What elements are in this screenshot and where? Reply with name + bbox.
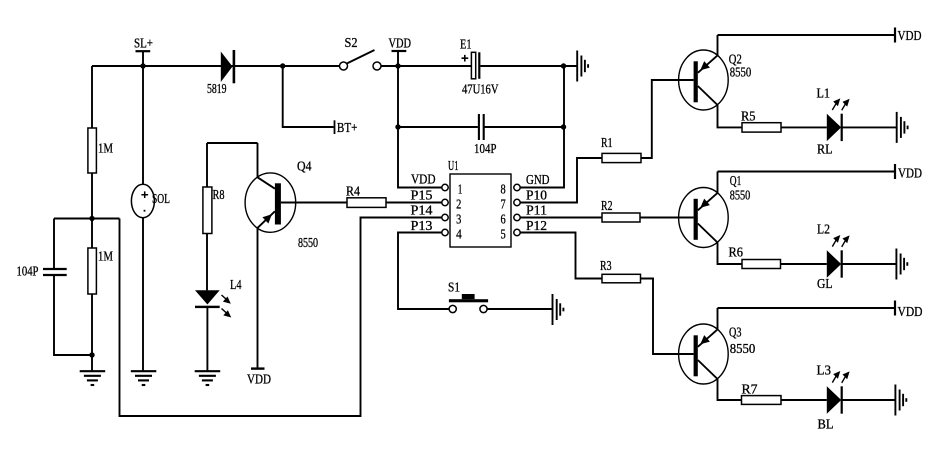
wire SL+ rail to SOL	[142, 66, 144, 184]
resistor R2	[601, 198, 640, 222]
svg-text:GL: GL	[817, 276, 833, 291]
ground L1	[897, 112, 908, 143]
node 1M divider junction	[89, 216, 94, 221]
wire pin7 to R1	[520, 158, 602, 203]
resistor 1M upper	[88, 128, 113, 173]
wire R3 to Q3 base	[641, 279, 694, 355]
svg-text:104P: 104P	[474, 141, 497, 156]
node ground-left junction	[89, 352, 94, 357]
transistor Q4	[245, 159, 318, 251]
ground L2	[896, 249, 907, 280]
wire BT+ branch	[283, 66, 334, 127]
power terminal VDD bottom	[247, 369, 271, 387]
wire R8 upper lead	[206, 143, 208, 187]
svg-text:L2: L2	[817, 222, 830, 237]
capacitor E1	[460, 37, 499, 97]
svg-text:L1: L1	[817, 86, 831, 101]
node ground-top junction	[561, 63, 566, 68]
svg-text:47U16V: 47U16V	[462, 82, 499, 97]
wire left rail mid	[91, 173, 93, 248]
wire R2 to Q1 base	[640, 217, 694, 219]
svg-text:1M: 1M	[98, 249, 113, 264]
transistor Q1	[679, 173, 751, 248]
svg-text:VDD: VDD	[898, 166, 922, 181]
node 104P-mid right junction	[561, 124, 566, 129]
svg-text:VDD: VDD	[247, 372, 271, 387]
switch S2	[340, 35, 382, 70]
wire E1 to ground	[480, 65, 576, 67]
svg-text:7: 7	[501, 196, 507, 211]
svg-text:R1: R1	[601, 135, 613, 150]
wire 104P-mid right segment	[484, 126, 564, 128]
ground left (1M)	[80, 371, 106, 385]
wire Q4 emitter to VDD	[257, 228, 259, 369]
svg-text:VDD: VDD	[898, 304, 923, 319]
svg-text:Q4: Q4	[297, 159, 312, 174]
svg-text:P13: P13	[411, 218, 433, 233]
resistor R1	[601, 135, 641, 163]
node BT+ junction	[280, 63, 285, 68]
wire Q2 emitter	[717, 35, 719, 55]
wire row3 VDD	[718, 307, 896, 309]
wire L1 to ground	[842, 126, 896, 128]
wire VDD rail to pin1	[398, 51, 442, 188]
wire diode to S2	[235, 65, 339, 67]
ground L4	[195, 371, 221, 385]
svg-text:GND: GND	[526, 172, 550, 187]
wire Q2 collector to R5	[718, 105, 743, 127]
power terminal VDD row3	[895, 301, 923, 320]
label SL+	[134, 36, 153, 52]
IC U1	[411, 158, 550, 247]
svg-text:Q3: Q3	[729, 325, 742, 340]
wire 104P-left node horizontal	[54, 218, 120, 220]
svg-text:R2: R2	[601, 198, 613, 213]
ground L3	[895, 385, 906, 416]
svg-text:Q1: Q1	[730, 173, 742, 188]
wire Q1 emitter	[717, 172, 719, 193]
wire Q3 collector to R7	[718, 379, 742, 400]
capacitor 104P mid	[474, 114, 497, 156]
resistor R4	[346, 184, 386, 208]
transistor Q2	[679, 50, 752, 110]
wire Q1 collector to R6	[718, 243, 743, 265]
node 104P-mid left junction	[395, 124, 400, 129]
wire P14 long route	[120, 218, 442, 417]
wire pin8 GND up	[520, 66, 564, 188]
transistor Q3	[679, 324, 756, 384]
wire Q4 collector	[257, 143, 259, 177]
svg-text:P10: P10	[526, 187, 547, 202]
svg-text:104P: 104P	[17, 264, 39, 279]
svg-text:U1: U1	[448, 158, 459, 173]
svg-text:4: 4	[456, 226, 462, 241]
svg-text:8550: 8550	[730, 188, 751, 203]
wire pin4 to S1	[398, 233, 449, 310]
node top-left junction	[140, 63, 145, 68]
power terminal VDD row2	[895, 164, 922, 181]
wire Q4 base to R4	[281, 202, 347, 204]
svg-text:R4: R4	[346, 184, 360, 199]
wire pin5 to R3	[520, 233, 602, 279]
svg-text:R7: R7	[742, 382, 758, 397]
svg-text:8: 8	[501, 181, 507, 196]
resistor R7	[742, 382, 782, 405]
svg-text:VDD: VDD	[411, 172, 436, 187]
wire 104P-left cap top lead	[53, 219, 55, 269]
svg-text:6: 6	[501, 211, 507, 226]
LED L2	[817, 222, 850, 292]
wire L4 to ground	[206, 308, 208, 370]
wire top rail	[92, 65, 340, 67]
wire Q3 emitter	[717, 308, 719, 329]
wire R8 top	[207, 142, 258, 144]
svg-text:P15: P15	[411, 187, 433, 202]
ground top (E1)	[577, 51, 588, 82]
svg-text:S2: S2	[345, 35, 358, 50]
svg-text:VDD: VDD	[898, 28, 922, 43]
resistor R8	[203, 187, 225, 234]
svg-text:1: 1	[458, 181, 462, 196]
svg-text:BT+: BT+	[337, 120, 358, 135]
svg-text:RL: RL	[817, 142, 833, 157]
svg-text:P11: P11	[526, 203, 547, 218]
wire 104P-mid left segment	[398, 126, 478, 128]
diode 5819	[207, 50, 235, 96]
wire R5 to L1	[781, 126, 827, 128]
solar cell SOL	[131, 184, 170, 217]
power terminal VDD row1	[895, 28, 922, 44]
svg-text:BL: BL	[818, 417, 834, 432]
svg-text:SL+: SL+	[134, 36, 153, 51]
wire R7 to L3	[781, 399, 827, 401]
svg-text:P14: P14	[411, 203, 433, 218]
svg-text:5819: 5819	[207, 81, 227, 96]
svg-text:E1: E1	[460, 37, 472, 52]
resistor R3	[600, 258, 641, 283]
wire 104P-left cap bottom lead	[54, 276, 92, 355]
resistor 1M lower	[88, 248, 113, 294]
svg-text:L4: L4	[230, 277, 242, 292]
svg-text:P12: P12	[526, 218, 547, 233]
wire L2 to ground	[842, 263, 896, 265]
wire SOL to ground	[142, 218, 144, 371]
svg-text:L3: L3	[817, 363, 832, 378]
battery terminal BT+	[335, 120, 358, 135]
capacitor 104P left	[17, 264, 67, 279]
wire row1 VDD	[718, 34, 896, 36]
label VDD top	[389, 36, 412, 52]
svg-text:8550: 8550	[730, 65, 752, 80]
svg-text:SOL: SOL	[152, 191, 170, 206]
svg-text:3: 3	[456, 211, 462, 226]
svg-text:R3: R3	[600, 258, 612, 273]
wire R8 to L4	[206, 234, 208, 291]
wire pin6 to R2	[520, 217, 602, 219]
LED L1	[817, 86, 850, 157]
node VDD junction	[395, 63, 400, 68]
wire S1 to ground	[487, 308, 552, 310]
wire R6 to L2	[781, 263, 827, 265]
svg-text:R5: R5	[741, 109, 756, 124]
wire R4 to pin2	[386, 202, 442, 204]
ground S1	[553, 294, 564, 325]
svg-text:2: 2	[456, 196, 461, 211]
svg-text:8550: 8550	[730, 341, 756, 356]
svg-text:1M: 1M	[98, 141, 113, 156]
svg-text:5: 5	[501, 226, 507, 241]
ground SOL	[131, 371, 157, 385]
wire R1 to Q2 base	[641, 80, 694, 158]
LED L3	[817, 363, 850, 432]
svg-text:VDD: VDD	[389, 36, 412, 51]
svg-text:S1: S1	[448, 280, 460, 295]
wire L3 to ground	[842, 399, 895, 401]
svg-text:R6: R6	[729, 245, 744, 260]
wire left rail lower	[91, 294, 93, 370]
LED L4	[195, 277, 242, 318]
wire row2 VDD	[718, 171, 896, 173]
svg-text:R8: R8	[213, 187, 225, 202]
wire S2 to E1	[381, 65, 471, 67]
wire left rail upper	[91, 66, 93, 128]
resistor R5	[741, 109, 781, 133]
pushbutton S1	[448, 280, 488, 313]
resistor R6	[729, 245, 781, 269]
wire SL+ stub	[142, 51, 144, 66]
svg-text:8550: 8550	[298, 235, 318, 250]
